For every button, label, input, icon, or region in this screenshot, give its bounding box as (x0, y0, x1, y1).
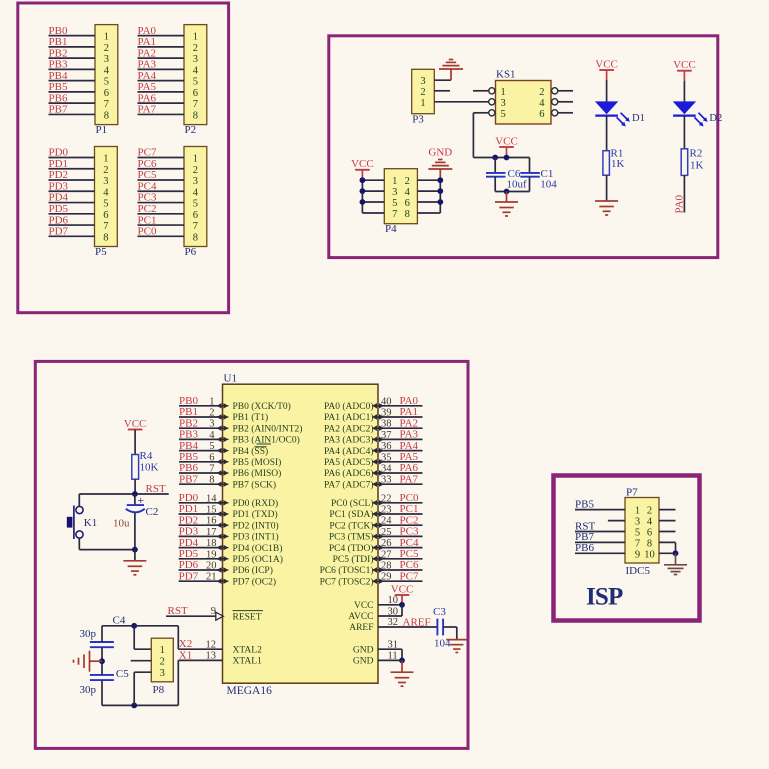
pin PB3 (pin 4) wire and label (179, 429, 300, 446)
svg-text:16: 16 (206, 516, 217, 527)
svg-text:2: 2 (209, 408, 214, 419)
resistor R4 (132, 450, 159, 479)
svg-text:7: 7 (193, 221, 198, 232)
svg-text:PC3: PC3 (400, 526, 419, 538)
component KS1 (switch block) (489, 69, 558, 124)
svg-text:2: 2 (103, 165, 108, 176)
wire stub P3 pin2 (434, 90, 450, 92)
svg-text:VCC: VCC (673, 59, 696, 71)
svg-text:2: 2 (193, 165, 198, 176)
VCC symbol at MCU pin 10 (391, 583, 414, 604)
net label PB6 and wire to P7 pin9 (575, 542, 625, 554)
svg-text:PC1 (SDA): PC1 (SDA) (329, 509, 373, 520)
svg-text:PD1: PD1 (49, 158, 69, 170)
pin PB2 (pin 3) wire and label (179, 417, 302, 434)
wire top rail C6/C1 (495, 157, 529, 159)
VCC symbol above D2 (673, 59, 696, 81)
wire PB2 to P1 pin 3 (49, 57, 96, 59)
svg-text:PA3: PA3 (138, 59, 157, 71)
connector P6 (184, 147, 207, 259)
svg-text:PB3: PB3 (49, 59, 68, 71)
pin GND (pin 11) wire (353, 649, 402, 666)
VCC symbol at P4 (351, 158, 374, 180)
ground at C3 (446, 639, 467, 641)
svg-text:15: 15 (206, 505, 217, 516)
svg-text:PD4: PD4 (179, 537, 199, 549)
pin PB5 (pin 6) wire and label (179, 451, 281, 468)
svg-text:P1: P1 (96, 124, 108, 136)
svg-text:PD7 (OC2): PD7 (OC2) (233, 576, 277, 587)
wire PD5 to P5 pin 6 (49, 213, 95, 215)
wire PD0 to P5 pin 1 (49, 157, 95, 159)
svg-text:PD3 (INT1): PD3 (INT1) (233, 532, 279, 543)
svg-text:1K: 1K (690, 160, 704, 172)
wire PC5 to P6 pin 3 (138, 179, 185, 181)
connector P3 (412, 69, 435, 125)
net label PB5 and wire to P7 pin1 (575, 499, 625, 511)
svg-text:X2: X2 (179, 638, 192, 650)
svg-text:1: 1 (193, 154, 198, 165)
svg-text:PC7: PC7 (400, 570, 419, 582)
svg-text:2: 2 (104, 43, 109, 54)
svg-text:PB2: PB2 (179, 417, 198, 429)
svg-text:2: 2 (420, 87, 425, 98)
wire PA5 to P2 pin 6 (138, 91, 185, 93)
pin PC7 (pin 29) wire and label (320, 570, 423, 587)
svg-text:PB7: PB7 (179, 473, 198, 485)
svg-text:8: 8 (193, 232, 198, 243)
svg-text:10K: 10K (140, 462, 159, 474)
wire VCC to D1 (606, 80, 608, 101)
pin PB7 (pin 8) wire and label (179, 473, 276, 490)
svg-text:PA3 (ADC3): PA3 (ADC3) (324, 435, 374, 446)
svg-text:PD2: PD2 (49, 169, 69, 181)
svg-text:4: 4 (104, 65, 110, 76)
wire PC7 to P6 pin 1 (138, 157, 185, 159)
svg-text:7: 7 (104, 99, 109, 110)
pin PC1 (pin 23) wire and label (329, 503, 422, 520)
net label RST and wire to P7 pin5 (575, 520, 625, 532)
svg-text:PC5 (TDI): PC5 (TDI) (333, 554, 374, 565)
svg-text:31: 31 (388, 639, 399, 650)
capacitor C2 (polarized) (113, 493, 158, 549)
svg-text:PD6: PD6 (49, 214, 69, 226)
wire PA4 to P2 pin 5 (138, 80, 185, 82)
wire VCC to AVCC pin 30 (348, 605, 402, 622)
svg-text:AREF: AREF (349, 623, 373, 633)
svg-text:RST: RST (168, 605, 188, 617)
svg-text:PB0: PB0 (49, 25, 68, 37)
svg-text:PC0 (SCL): PC0 (SCL) (331, 498, 374, 509)
svg-text:2: 2 (160, 657, 165, 668)
svg-text:K1: K1 (84, 517, 97, 529)
svg-text:PC7: PC7 (138, 147, 157, 159)
svg-text:6: 6 (103, 210, 108, 221)
border frame box A (port headers) (18, 3, 229, 313)
wire PB5 to P1 pin 6 (49, 91, 96, 93)
svg-text:PA0: PA0 (138, 25, 157, 37)
svg-text:1: 1 (103, 154, 108, 165)
svg-text:KS1: KS1 (496, 69, 516, 81)
wire PC1 to P6 pin 7 (138, 224, 185, 226)
pin PB6 (pin 7) wire and label (179, 462, 281, 479)
pin PA3 (pin 37) wire and label (324, 429, 423, 446)
svg-text:PA2: PA2 (138, 47, 157, 59)
svg-text:PD4: PD4 (49, 192, 69, 204)
svg-text:PA6: PA6 (400, 462, 419, 474)
border frame box C (MCU) (35, 361, 468, 748)
svg-text:6: 6 (539, 109, 544, 120)
svg-text:1: 1 (420, 98, 425, 109)
pin PC3 (pin 25) wire and label (329, 526, 423, 543)
svg-text:VCC: VCC (595, 58, 618, 70)
pin PC0 (pin 22) wire and label (331, 492, 423, 509)
svg-text:PD7: PD7 (179, 570, 199, 582)
svg-text:VCC: VCC (391, 583, 414, 595)
junction C2 bottom (132, 547, 138, 553)
svg-text:PA1 (ADC1): PA1 (ADC1) (324, 412, 374, 423)
svg-text:3: 3 (635, 517, 640, 528)
pin PB4 (pin 5) wire and label (179, 440, 268, 457)
pin PA2 (pin 38) wire and label (324, 417, 423, 434)
svg-text:PC6: PC6 (400, 559, 419, 571)
svg-text:PD5: PD5 (49, 203, 69, 215)
pin PA0 (pin 40) wire and label (324, 395, 423, 412)
ground below K1/C2 (123, 550, 146, 575)
junction C4/C5 node (99, 658, 105, 664)
pin PD6 (pin 20) wire and label (179, 559, 273, 576)
svg-text:IDC5: IDC5 (626, 565, 651, 577)
svg-text:PA0: PA0 (674, 194, 686, 213)
capacitor C3 (433, 606, 451, 649)
svg-text:PB7 (SCK): PB7 (SCK) (233, 479, 277, 490)
svg-text:1: 1 (392, 176, 397, 187)
pin PD1 (pin 15) wire and label (179, 503, 278, 520)
wire P3 pin3 to ground (434, 79, 451, 81)
wire PD7 to P5 pin 8 (49, 235, 95, 237)
VCC symbol above R4 (124, 418, 147, 455)
svg-text:XTAL1: XTAL1 (233, 657, 263, 667)
ground below P7 (664, 553, 687, 574)
pin XTAL2 (pin 12) wire and label (178, 638, 262, 655)
wire R4 to RST node (134, 479, 136, 494)
wire KS1 pin1 stub (473, 90, 489, 92)
svg-text:4: 4 (103, 187, 109, 198)
svg-text:R4: R4 (140, 450, 153, 462)
wire stub P7 pin2 (659, 509, 676, 511)
wire stub P7 pin6 (659, 531, 676, 533)
svg-text:PA5 (ADC5): PA5 (ADC5) (324, 457, 374, 468)
svg-text:32: 32 (388, 617, 399, 628)
wire PB3 to P1 pin 4 (49, 68, 96, 70)
svg-text:3: 3 (501, 98, 506, 109)
wire to P8 pin1 (134, 626, 151, 649)
svg-text:PC6 (TOSC1): PC6 (TOSC1) (320, 565, 374, 576)
svg-text:PB5: PB5 (49, 81, 68, 93)
svg-text:PD5 (OC1A): PD5 (OC1A) (233, 554, 283, 565)
svg-text:5: 5 (103, 199, 108, 210)
wire bottom rail C6/C1 (495, 191, 529, 193)
svg-text:7: 7 (193, 99, 198, 110)
svg-text:PC0: PC0 (138, 226, 157, 238)
svg-text:PA2: PA2 (400, 417, 419, 429)
pin PA5 (pin 35) wire and label (324, 451, 423, 468)
svg-text:3: 3 (160, 668, 165, 679)
pin PB0 (pin 1) wire and label (179, 395, 291, 412)
GND symbol at P4 (428, 147, 452, 181)
wire stub P8 pin2 (131, 660, 152, 662)
svg-text:2: 2 (539, 87, 544, 98)
svg-text:PA1: PA1 (400, 406, 419, 418)
svg-text:PD0: PD0 (49, 147, 69, 159)
svg-text:PB7: PB7 (49, 104, 68, 116)
svg-text:7: 7 (392, 209, 397, 220)
wire P7 pin10 to ground net (659, 552, 676, 554)
svg-text:PC5: PC5 (138, 169, 157, 181)
svg-text:PA5: PA5 (138, 81, 157, 93)
wire C3 to ground (443, 627, 457, 639)
svg-text:1: 1 (635, 506, 640, 517)
pin PA4 (pin 36) wire and label (324, 440, 423, 457)
svg-text:GND: GND (353, 645, 374, 655)
svg-text:10uf: 10uf (507, 179, 528, 191)
svg-text:5: 5 (104, 77, 109, 88)
ground below C6 (495, 192, 518, 217)
svg-text:PD5: PD5 (179, 548, 199, 560)
svg-text:30p: 30p (80, 684, 97, 696)
pin PC6 (pin 28) wire and label (320, 559, 423, 576)
svg-text:PA4: PA4 (138, 70, 157, 82)
svg-text:PA5: PA5 (400, 451, 419, 463)
svg-text:3: 3 (104, 54, 109, 65)
svg-text:PC3: PC3 (138, 192, 157, 204)
svg-text:5: 5 (209, 441, 214, 452)
node junction C6 top (492, 155, 498, 161)
svg-text:PD0 (RXD): PD0 (RXD) (233, 498, 279, 509)
ground at P3 pin3 (439, 60, 463, 81)
svg-text:PD0: PD0 (179, 492, 199, 504)
LED D2 (673, 101, 723, 126)
svg-text:PB6 (MISO): PB6 (MISO) (233, 468, 282, 479)
svg-text:104: 104 (540, 179, 557, 191)
svg-text:P8: P8 (153, 684, 165, 696)
net label PB7 and wire to P7 pin7 (575, 531, 625, 543)
svg-text:1: 1 (104, 32, 109, 43)
svg-text:AREF: AREF (403, 616, 431, 628)
wire VCC to D2 (683, 81, 685, 102)
svg-text:PC1: PC1 (138, 214, 157, 226)
svg-text:PB0: PB0 (179, 395, 198, 407)
svg-text:ISP: ISP (586, 584, 623, 611)
svg-text:12: 12 (206, 639, 217, 650)
svg-text:U1: U1 (224, 373, 237, 385)
pin XTAL1 (pin 13) wire and label (178, 649, 262, 666)
pin VCC (pin 10) wire (354, 595, 402, 611)
pin PC5 (pin 27) wire and label (333, 548, 423, 565)
push button K1 (67, 494, 135, 550)
pin PA7 (pin 33) wire and label (324, 473, 423, 490)
svg-text:7: 7 (635, 538, 640, 549)
svg-text:11: 11 (388, 651, 398, 662)
svg-text:GND: GND (353, 657, 374, 667)
svg-text:PD6: PD6 (179, 559, 199, 571)
svg-text:PC3 (TMS): PC3 (TMS) (329, 532, 374, 543)
junction P4 pin3 (360, 188, 366, 194)
svg-text:XTAL2: XTAL2 (233, 645, 263, 655)
svg-text:6: 6 (193, 88, 198, 99)
svg-text:6: 6 (405, 198, 410, 209)
svg-text:PD2 (INT0): PD2 (INT0) (233, 520, 279, 531)
wire PB6 to P1 pin 7 (49, 102, 96, 104)
svg-text:PD6 (ICP): PD6 (ICP) (233, 565, 273, 576)
svg-text:PD3: PD3 (49, 180, 69, 192)
wire stub KS1 pin4 (558, 101, 573, 103)
svg-text:9: 9 (635, 549, 640, 560)
svg-text:PC4: PC4 (400, 537, 419, 549)
wire stub P7 pin4 (659, 520, 676, 522)
wire PC2 to P6 pin 6 (138, 213, 185, 215)
svg-text:PA4 (ADC4): PA4 (ADC4) (324, 446, 374, 457)
svg-text:30: 30 (388, 606, 399, 617)
svg-text:PA7 (ADC7): PA7 (ADC7) (324, 479, 374, 490)
pin PC4 (pin 26) wire and label (329, 537, 423, 554)
underline on AIN of PB3 (257, 443, 272, 445)
ground below MCU GND pins (391, 660, 414, 686)
svg-text:PD3: PD3 (179, 526, 199, 538)
svg-text:PC4 (TDO): PC4 (TDO) (329, 543, 374, 554)
svg-text:4: 4 (647, 517, 653, 528)
resistor R2 (681, 147, 703, 175)
svg-text:1: 1 (193, 32, 198, 43)
junction RST node (132, 491, 138, 497)
svg-text:4: 4 (539, 98, 545, 109)
node junction VCC rail (504, 155, 510, 161)
ground below R1 (595, 200, 618, 202)
pin PB1 (pin 2) wire and label (179, 406, 268, 423)
wire PA3 to P2 pin 4 (138, 68, 185, 70)
svg-text:6: 6 (193, 210, 198, 221)
svg-text:PA3: PA3 (400, 429, 419, 441)
svg-text:VCC: VCC (124, 418, 147, 430)
svg-text:PA0: PA0 (400, 395, 419, 407)
svg-text:10: 10 (644, 549, 655, 560)
svg-text:MEGA16: MEGA16 (227, 685, 273, 697)
connector P7 (625, 486, 659, 576)
svg-text:C4: C4 (113, 615, 126, 627)
wire PC0 to P6 pin 8 (138, 235, 185, 237)
pin PD3 (pin 17) wire and label (179, 526, 279, 543)
wire R2 to PA0 net (683, 175, 685, 212)
svg-text:PD7: PD7 (49, 226, 69, 238)
svg-text:2: 2 (405, 176, 410, 187)
wire PC4 to P6 pin 4 (138, 190, 185, 192)
svg-text:D2: D2 (709, 113, 722, 124)
svg-text:PD2: PD2 (179, 514, 199, 526)
svg-text:2: 2 (647, 506, 652, 517)
wire PA2 to P2 pin 3 (138, 57, 185, 59)
svg-text:D1: D1 (632, 113, 645, 124)
wire stub P7 pin3 (608, 520, 625, 522)
svg-text:PA7: PA7 (138, 104, 157, 116)
svg-text:PC6: PC6 (138, 158, 157, 170)
pin RESET (pin 9) wire and label (166, 605, 263, 622)
svg-text:C3: C3 (433, 606, 446, 618)
svg-text:PB0 (XCK/T0): PB0 (XCK/T0) (233, 401, 291, 412)
wire PC3 to P6 pin 5 (138, 202, 185, 204)
connector P2 (184, 25, 207, 137)
svg-text:PC5: PC5 (400, 548, 419, 560)
junction P7 ground node (673, 550, 679, 556)
wire KS1 pin5 down to C6 rail (473, 113, 495, 158)
svg-text:8: 8 (405, 209, 410, 220)
svg-text:PD1: PD1 (179, 503, 199, 515)
svg-text:PB2: PB2 (49, 47, 68, 59)
svg-text:PA4: PA4 (400, 440, 419, 452)
wire R1 to ground (606, 175, 608, 200)
svg-text:3: 3 (193, 54, 198, 65)
junction P4 pin2 (437, 177, 443, 183)
wire C4-C5 middle node (101, 647, 103, 675)
svg-text:3: 3 (420, 76, 425, 87)
svg-text:PA6: PA6 (138, 92, 157, 104)
svg-text:PB4: PB4 (49, 70, 68, 82)
border frame box B (power and LEDs) (329, 36, 718, 258)
svg-text:P2: P2 (185, 124, 197, 136)
wire PD2 to P5 pin 3 (49, 179, 95, 181)
svg-text:PA6 (ADC6): PA6 (ADC6) (324, 468, 374, 479)
wire P7 pin8 to ground net (659, 542, 676, 553)
svg-text:1: 1 (501, 87, 506, 98)
svg-text:7: 7 (103, 221, 108, 232)
wire PA6 to P2 pin 7 (138, 102, 185, 104)
svg-text:P5: P5 (95, 246, 107, 258)
svg-text:19: 19 (206, 549, 217, 560)
svg-text:RESET: RESET (233, 612, 262, 622)
svg-text:6: 6 (209, 452, 214, 463)
LED D1 (595, 101, 645, 126)
pin PD4 (pin 18) wire and label (179, 537, 283, 554)
svg-text:5: 5 (193, 77, 198, 88)
wire PC6 to P6 pin 2 (138, 168, 185, 170)
svg-text:21: 21 (206, 572, 217, 583)
svg-text:PC1: PC1 (400, 503, 419, 515)
wire PD3 to P5 pin 4 (49, 190, 95, 192)
svg-text:1K: 1K (611, 158, 625, 170)
svg-text:X1: X1 (179, 649, 192, 661)
wire XTAL2 net rail (102, 626, 178, 649)
border frame box D (ISP) (554, 476, 700, 621)
node junction C6 bottom (504, 189, 510, 195)
svg-text:10: 10 (388, 595, 399, 606)
wire RST rail (79, 493, 168, 495)
svg-text:4: 4 (193, 187, 199, 198)
wire PD4 to P5 pin 5 (49, 202, 95, 204)
junction P4 pin5 (360, 199, 366, 205)
pin PD5 (pin 19) wire and label (179, 548, 283, 565)
svg-text:P7: P7 (626, 486, 638, 498)
svg-text:VCC: VCC (495, 135, 518, 147)
svg-text:10u: 10u (113, 518, 130, 530)
capacitor C6 (486, 158, 527, 192)
svg-text:5: 5 (193, 199, 198, 210)
wire to P8 pin3 (134, 672, 151, 705)
svg-text:7: 7 (209, 464, 214, 475)
pin PD7 (pin 21) wire and label (179, 570, 276, 587)
wire PA1 to P2 pin 2 (138, 46, 185, 48)
svg-text:VCC: VCC (351, 158, 374, 170)
pin PD0 (pin 14) wire and label (179, 492, 279, 509)
svg-text:C2: C2 (146, 506, 159, 518)
